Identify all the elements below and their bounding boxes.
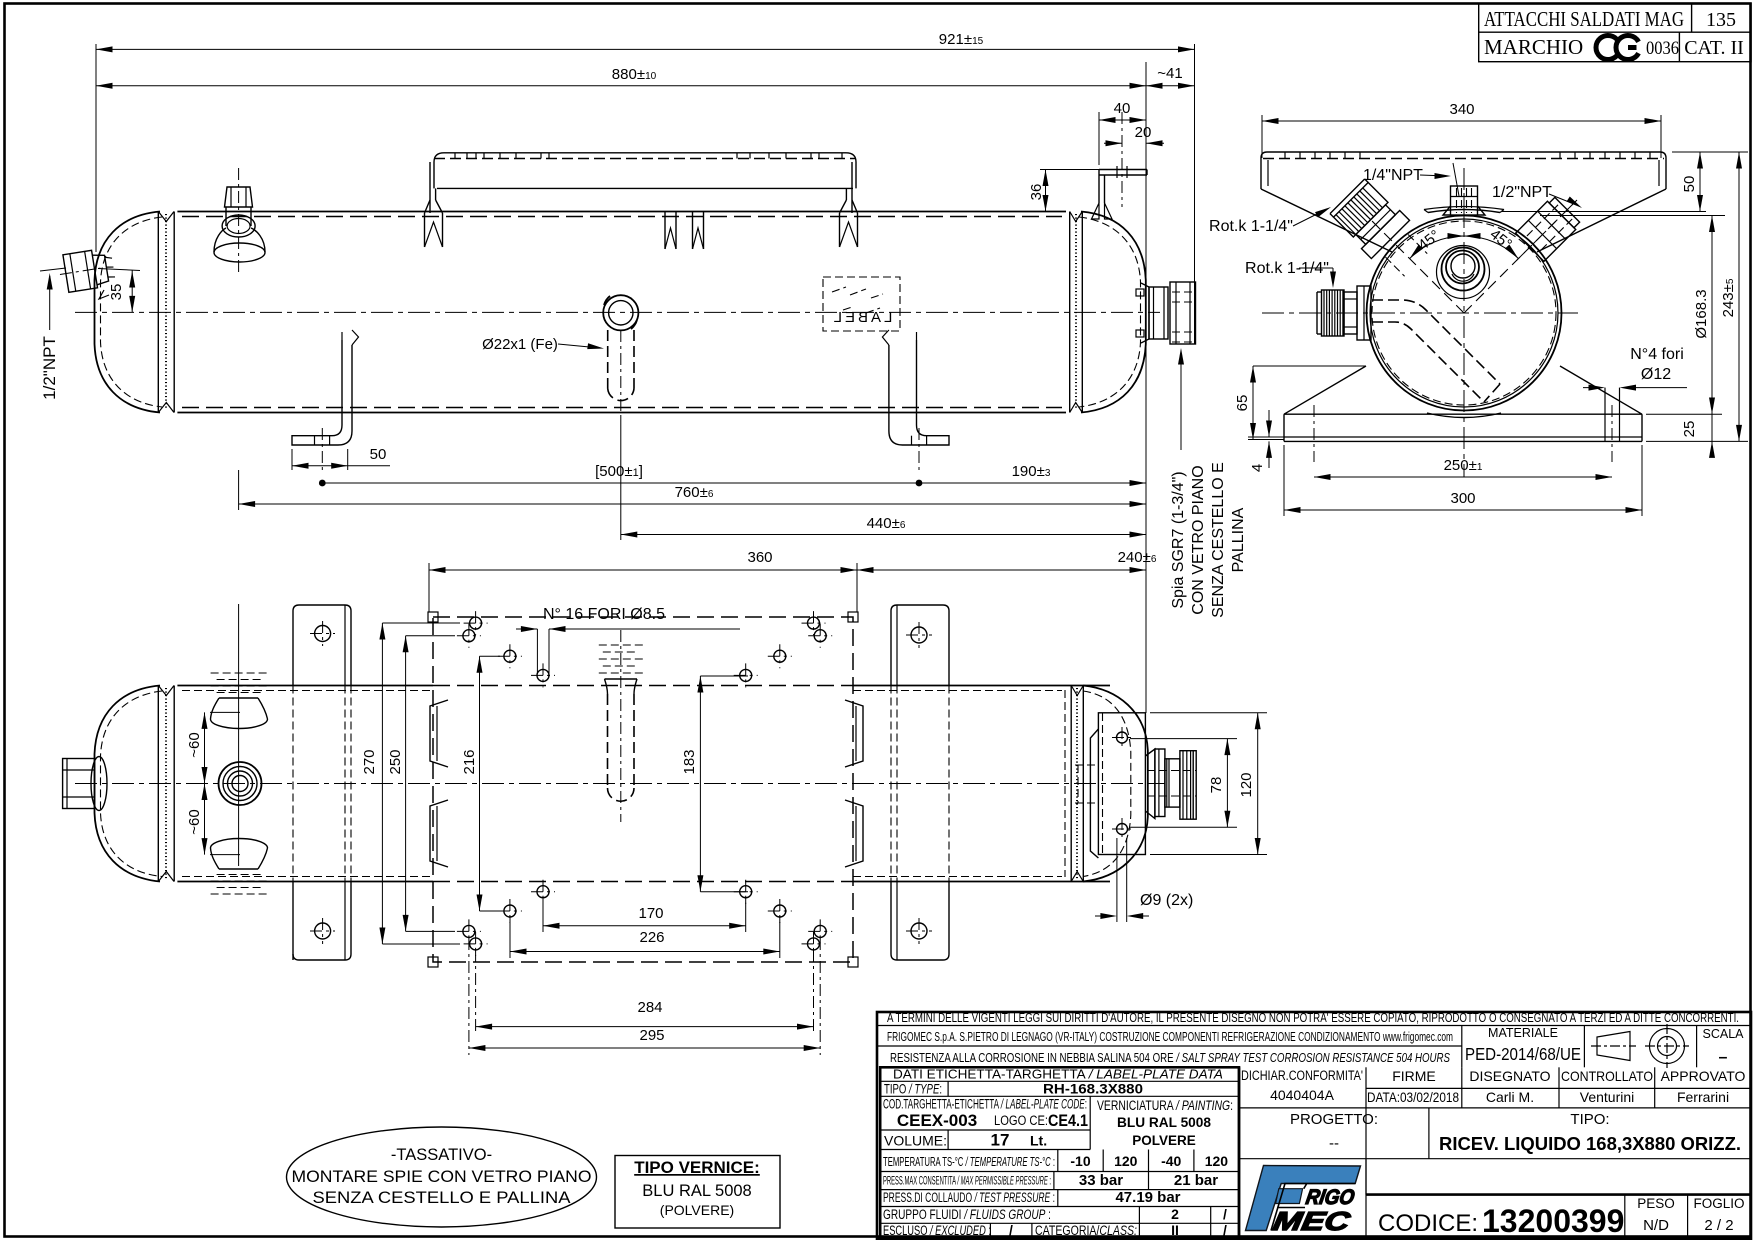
dim 300: [1283, 445, 1285, 516]
handle top: [434, 153, 856, 189]
svg-text:Rot.k 1-1/4": Rot.k 1-1/4": [1209, 218, 1293, 235]
svg-text:17: 17: [991, 1131, 1010, 1150]
svg-text:270: 270: [361, 749, 378, 774]
side view tank outline: [95, 212, 1146, 413]
dim 25: [1646, 413, 1722, 415]
handle leg pads top view: [430, 700, 448, 767]
tassativo note ellipse: [287, 1127, 597, 1227]
svg-text:N° 16 FORI Ø8.5: N° 16 FORI Ø8.5: [543, 606, 665, 623]
svg-text:65: 65: [1234, 395, 1251, 412]
svg-text:TIPO / TYPE:: TIPO / TYPE:: [884, 1081, 942, 1097]
svg-text:Ø168.3: Ø168.3: [1693, 289, 1710, 338]
svg-text:78: 78: [1208, 777, 1225, 794]
svg-text:Ø22x1 (Fe): Ø22x1 (Fe): [482, 336, 558, 353]
dim 921: [95, 44, 97, 252]
svg-text:21 bar: 21 bar: [1174, 1172, 1218, 1189]
nozzle top view center circles: [219, 762, 262, 805]
label plate dashed box: [823, 277, 900, 331]
svg-text:RH-168.3X880: RH-168.3X880: [1043, 1082, 1143, 1097]
svg-text:ATTACCHI SALDATI MAG: ATTACCHI SALDATI MAG: [1484, 7, 1684, 31]
svg-text:40: 40: [1114, 100, 1131, 117]
dim O168.3: [1540, 215, 1725, 217]
dim 500: [322, 482, 919, 484]
svg-text:Ø9 (2x): Ø9 (2x): [1140, 892, 1193, 909]
svg-text:~41: ~41: [1157, 65, 1182, 82]
svg-text:PALLINA: PALLINA: [1230, 507, 1247, 572]
nozzle top view lower 45 fitting: [211, 839, 268, 895]
spia fitting top view: [1145, 749, 1196, 819]
dim 20: [1104, 142, 1122, 144]
svg-text:PRESS.MAX CONSENTITA / MAX PER: PRESS.MAX CONSENTITA / MAX PERMISSIBLE P…: [883, 1176, 1051, 1188]
spia flange plate top view: [1090, 713, 1145, 858]
dim 760: [238, 470, 240, 510]
svg-text:13200399: 13200399: [1482, 1203, 1624, 1239]
svg-text:216: 216: [461, 749, 478, 774]
dim 250 end view: [1314, 476, 1612, 478]
svg-text:1/2"NPT: 1/2"NPT: [40, 336, 59, 400]
dim 50 end view: [1672, 151, 1748, 153]
svg-text:120: 120: [1205, 1153, 1229, 1169]
svg-text:APPROVATO: APPROVATO: [1661, 1068, 1746, 1084]
top saddle pad: [1428, 210, 1500, 213]
svg-text:Venturini: Venturini: [1580, 1089, 1634, 1105]
svg-text:--: --: [1329, 1135, 1339, 1152]
svg-text:MARCHIO: MARCHIO: [1484, 35, 1583, 59]
top view right weld seam: [1070, 686, 1072, 882]
dim 295: [468, 938, 470, 1055]
spia sight glass fitting side view: [1136, 282, 1196, 344]
top mounting plate end view: [1261, 152, 1666, 252]
top view tank outline: [95, 686, 1148, 882]
left bracket plate top view: [293, 605, 351, 960]
svg-text:300: 300: [1450, 490, 1475, 507]
svg-text:PESO: PESO: [1637, 1196, 1675, 1211]
fitting rotalock 1-1/4 upper left 45deg: [1328, 177, 1435, 284]
svg-text:CODICE:: CODICE:: [1378, 1210, 1478, 1237]
svg-text:2 / 2: 2 / 2: [1704, 1217, 1733, 1234]
materiale cell: [1461, 1026, 1463, 1068]
svg-text:170: 170: [638, 905, 663, 922]
fitting 1/2 NPT upper right 45deg: [1501, 189, 1587, 275]
svg-text:4040404A: 4040404A: [1270, 1087, 1335, 1103]
mounting plate dashed top view: [428, 612, 858, 967]
svg-text:DICHIAR.CONFORMITA': DICHIAR.CONFORMITA': [1241, 1068, 1363, 1083]
svg-text:BLU RAL 5008: BLU RAL 5008: [642, 1182, 751, 1200]
svg-text:-40: -40: [1161, 1153, 1181, 1169]
side view centerline: [75, 311, 1160, 313]
svg-text:Carli M.: Carli M.: [1486, 1089, 1534, 1105]
handle grip ticks: [454, 153, 456, 159]
svg-text:/: /: [1223, 1206, 1227, 1222]
top view hidden inner wall: [182, 690, 433, 692]
dim 120: [1150, 712, 1267, 714]
svg-text:CONTROLLATO: CONTROLLATO: [1561, 1068, 1653, 1084]
projection symbol cell: [1583, 1026, 1585, 1068]
scala cell: [1696, 1026, 1698, 1068]
svg-text:135: 135: [1706, 9, 1736, 31]
svg-text:GRUPPO FLUIDI / FLUIDS GROUP :: GRUPPO FLUIDI / FLUIDS GROUP :: [883, 1207, 1051, 1222]
top view centerline: [75, 783, 1165, 785]
45 degree reference lines: [1351, 200, 1577, 313]
dim 183: [700, 675, 748, 677]
left head valve 1/2 NPT: [57, 247, 116, 293]
dim 270: [382, 622, 460, 624]
dim 880: [96, 85, 1146, 87]
svg-text:/: /: [1009, 1222, 1013, 1238]
sight glass circles end view: [1437, 246, 1490, 299]
frigomec logo: [1246, 1166, 1361, 1236]
svg-text:MONTARE SPIE CON VETRO PIANO: MONTARE SPIE CON VETRO PIANO: [292, 1168, 592, 1186]
base bracket end view: [1284, 366, 1642, 462]
svg-text:MEC: MEC: [1271, 1206, 1354, 1236]
dim 226: [509, 917, 511, 958]
row volume: [880, 1149, 1090, 1151]
svg-text:LOGO CE:: LOGO CE:: [994, 1113, 1048, 1128]
svg-text:TEMPERATURA TS-°C / TEMPERATUR: TEMPERATURA TS-°C / TEMPERATURE TS-°C :: [883, 1155, 1055, 1169]
svg-text:DISEGNATO: DISEGNATO: [1469, 1068, 1550, 1084]
svg-text:COD.TARGHETTA-ETICHETTA / LABE: COD.TARGHETTA-ETICHETTA / LABEL-PLATE CO…: [883, 1097, 1087, 1112]
svg-text:BLU RAL 5008: BLU RAL 5008: [1117, 1115, 1211, 1130]
spia leader and labels: [1180, 352, 1182, 450]
plate holes 16x: [470, 617, 482, 629]
handle right leg: [851, 162, 853, 213]
top view left weld seam: [157, 686, 159, 882]
svg-text:POLVERE: POLVERE: [1132, 1133, 1196, 1148]
svg-text:PRESS.DI COLLAUDO / TEST PRESS: PRESS.DI COLLAUDO / TEST PRESSURE :: [883, 1190, 1055, 1205]
svg-text:FOGLIO: FOGLIO: [1693, 1196, 1744, 1211]
svg-text:~60: ~60: [186, 809, 203, 834]
svg-text:N°4 fori: N°4 fori: [1630, 346, 1684, 363]
dim ~60 lower: [210, 854, 240, 856]
svg-text:-10: -10: [1070, 1153, 1090, 1169]
plate weld ticks end view: [1284, 152, 1286, 159]
dip tube dashed end view: [1372, 300, 1500, 402]
svg-text:2: 2: [1171, 1206, 1179, 1222]
row tipo type: [880, 1095, 1239, 1097]
right top L-bracket: [1092, 112, 1148, 219]
hidden coupling behind head: [1075, 765, 1098, 803]
progetto cell: [1428, 1108, 1430, 1159]
svg-text:120: 120: [1114, 1153, 1138, 1169]
dim 340: [1261, 115, 1263, 158]
right foot bracket: [882, 330, 949, 472]
handle left leg: [429, 162, 431, 213]
dim 35: [98, 269, 140, 271]
svg-text:CEEX-003: CEEX-003: [897, 1111, 977, 1130]
svg-text:250: 250: [387, 749, 404, 774]
45 degree dimension arcs: [1410, 236, 1464, 259]
svg-text:284: 284: [637, 999, 662, 1016]
dim 190: [919, 482, 1146, 484]
svg-text:-TASSATIVO-: -TASSATIVO-: [391, 1146, 492, 1164]
svg-text:CATEGORIA/CLASS:: CATEGORIA/CLASS:: [1035, 1223, 1137, 1238]
svg-text:47.19 bar: 47.19 bar: [1115, 1189, 1180, 1206]
svg-text:CE4.1: CE4.1: [1048, 1111, 1088, 1130]
svg-text:1/2"NPT: 1/2"NPT: [1492, 184, 1552, 201]
CE mark logo: [1596, 35, 1639, 59]
svg-text:TIPO VERNICE:: TIPO VERNICE:: [634, 1158, 760, 1177]
dim ~60 upper: [210, 711, 240, 713]
svg-text:36: 36: [1028, 184, 1045, 201]
svg-text:RICEV. LIQUIDO 168,3X880 ORIZZ: RICEV. LIQUIDO 168,3X880 ORIZZ.: [1439, 1133, 1741, 1154]
top nozzle rotalock 1-1/4 on shell: [214, 168, 265, 272]
dim 36: [1040, 169, 1099, 171]
svg-text:183: 183: [681, 749, 698, 774]
svg-text:II: II: [1171, 1222, 1179, 1238]
svg-text:FRIGOMEC S.p.A. S.PIETRO DI LE: FRIGOMEC S.p.A. S.PIETRO DI LEGNAGO (VR-…: [887, 1030, 1453, 1044]
svg-text:50: 50: [1681, 176, 1698, 193]
dim 40: [1098, 112, 1100, 165]
svg-text:1/4"NPT: 1/4"NPT: [1363, 167, 1423, 184]
svg-text:(POLVERE): (POLVERE): [660, 1202, 734, 1218]
svg-text:20: 20: [1135, 124, 1152, 141]
side view right weld seam: [1069, 212, 1071, 413]
dim 216: [480, 655, 501, 657]
row gruppo fluidi: [880, 1222, 1239, 1224]
svg-text:FIRME: FIRME: [1392, 1068, 1436, 1084]
svg-text:VERNICIATURA / PAINTING:: VERNICIATURA / PAINTING:: [1097, 1098, 1233, 1113]
svg-text:/: /: [1223, 1222, 1227, 1238]
svg-text:–: –: [1719, 1049, 1728, 1066]
svg-text:50: 50: [370, 446, 387, 463]
svg-text:Ø12: Ø12: [1641, 366, 1671, 383]
dip tube top view: [599, 630, 643, 822]
svg-text:SCALA: SCALA: [1703, 1027, 1745, 1041]
dim 4: [1248, 436, 1284, 438]
nozzle top view upper 45 fitting: [211, 673, 268, 729]
svg-text:DATA:03/02/2018: DATA:03/02/2018: [1367, 1089, 1459, 1105]
copyright row: [877, 1025, 1751, 1027]
dim 440: [620, 418, 622, 540]
svg-text:4: 4: [1249, 464, 1266, 472]
bottom saddle pad: [1427, 413, 1501, 418]
dim 360 and 240: [428, 563, 430, 612]
svg-text:35: 35: [108, 284, 125, 301]
side view left weld seam: [157, 212, 159, 413]
svg-text:226: 226: [639, 929, 664, 946]
svg-text:PROGETTO:: PROGETTO:: [1290, 1111, 1378, 1128]
svg-text:Lt.: Lt.: [1030, 1133, 1047, 1149]
svg-text:340: 340: [1449, 101, 1474, 118]
svg-text:Spia SGR7 (1-3/4"): Spia SGR7 (1-3/4"): [1170, 471, 1187, 608]
dim 65: [1253, 365, 1366, 367]
left foot bracket: [292, 330, 359, 472]
svg-text:120: 120: [1238, 772, 1255, 797]
info box top right: [1479, 4, 1751, 62]
row cod targhetta: [880, 1129, 1090, 1131]
end view tank circle: [1367, 216, 1562, 411]
svg-text:ESCLUSO / EXCLUDED :: ESCLUSO / EXCLUDED :: [883, 1223, 991, 1238]
svg-text:DATI ETICHETTA-TARGHETTA / LAB: DATI ETICHETTA-TARGHETTA / LABEL-PLATE D…: [893, 1067, 1223, 1082]
svg-text:TIPO:: TIPO:: [1570, 1111, 1609, 1128]
svg-text:MATERIALE: MATERIALE: [1488, 1026, 1558, 1040]
row press max: [880, 1189, 1239, 1191]
svg-text:~60: ~60: [186, 732, 203, 757]
dip tube hidden lines: [607, 330, 609, 389]
middle weld tabs on shell: [665, 212, 676, 249]
svg-text:LABEL: LABEL: [831, 309, 893, 326]
svg-text:33 bar: 33 bar: [1079, 1172, 1123, 1189]
svg-text:A TERMINI DELLE VIGENTI LEGGI: A TERMINI DELLE VIGENTI LEGGI SUI DIRITT…: [887, 1011, 1739, 1025]
svg-text:360: 360: [747, 549, 772, 566]
dim 250 top view: [406, 635, 455, 637]
svg-text:SENZA CESTELLO E PALLINA: SENZA CESTELLO E PALLINA: [313, 1189, 571, 1207]
fitting 1/4 NPT top center: [1443, 170, 1485, 230]
svg-text:CON VETRO PIANO: CON VETRO PIANO: [1190, 465, 1207, 614]
svg-text:0036: 0036: [1646, 38, 1679, 59]
right bracket plate top view: [891, 605, 949, 960]
dim 243: [1646, 440, 1748, 442]
projection line nozzle: [238, 604, 240, 866]
right block dividers: [1238, 1067, 1241, 1238]
svg-text:CAT. II: CAT. II: [1684, 37, 1744, 59]
dim 284: [475, 950, 477, 1033]
left fitting top view: [63, 757, 107, 811]
dim ~41: [1146, 85, 1195, 87]
svg-text:VOLUME:: VOLUME:: [884, 1133, 947, 1149]
row temperatura: [880, 1171, 1239, 1173]
svg-text:25: 25: [1681, 421, 1698, 438]
dati etichetta table: [880, 1067, 1239, 1238]
dim 78: [1130, 738, 1237, 740]
dim 50 foot: [291, 449, 293, 470]
title block outer border: [877, 1012, 1751, 1239]
svg-text:295: 295: [639, 1027, 664, 1044]
dim 170: [542, 897, 544, 932]
side view hidden inner wall: [182, 216, 1062, 218]
svg-text:N/D: N/D: [1643, 1217, 1669, 1234]
svg-text:PED-2014/68/UE: PED-2014/68/UE: [1465, 1044, 1581, 1064]
end view centerlines: [1262, 312, 1578, 314]
svg-text:SENZA CESTELLO E: SENZA CESTELLO E: [1210, 462, 1227, 618]
svg-text:RESISTENZA ALLA CORROSIONE IN: RESISTENZA ALLA CORROSIONE IN NEBBIA SAL…: [890, 1050, 1450, 1065]
logo cell dividers: [1239, 1158, 1751, 1160]
row press collaudo: [880, 1206, 1239, 1208]
dip tube ring at center: [603, 295, 638, 330]
svg-text:Ferrarini: Ferrarini: [1677, 1089, 1729, 1105]
tipo vernice box: [615, 1156, 780, 1229]
fitting rotalock 1-1/4 left horizontal: [1317, 286, 1371, 340]
company row: [877, 1045, 1462, 1047]
